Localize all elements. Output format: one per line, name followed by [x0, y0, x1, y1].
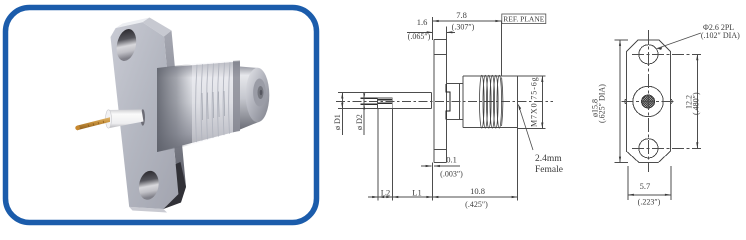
dim phiD1 line [341, 93, 343, 136]
flange bottom face sliver [129, 207, 167, 213]
white dielectric tube [108, 110, 144, 129]
0.1 arrows (outside) [426, 165, 432, 167]
body rectangle [462, 76, 464, 128]
svg-text:REF. PLANE: REF. PLANE [503, 15, 544, 24]
d1 arrows [341, 93, 343, 99]
15.8 arrows [619, 40, 621, 46]
svg-text:2.4mm: 2.4mm [535, 154, 562, 164]
svg-text:Female: Female [535, 165, 563, 175]
svg-text:5.7: 5.7 [640, 181, 651, 191]
12.2 arrows [696, 54, 698, 60]
dia 15.8 dim [619, 40, 621, 163]
svg-text:1.6: 1.6 [417, 17, 428, 27]
tube entry shadow [141, 109, 145, 125]
vertical centerline [647, 30, 649, 172]
ext line top (flange front face) [432, 17, 434, 40]
arrows middle view [341, 20, 543, 198]
REF PLANE vertical line [500, 21, 502, 76]
flange outline octagon [627, 40, 671, 163]
2.4mm female leader [518, 105, 533, 151]
rear shadow band behind flange [157, 64, 192, 152]
horizontal centerline center [622, 101, 676, 103]
svg-text:L2: L2 [381, 188, 390, 198]
svg-text:7.8: 7.8 [456, 10, 467, 20]
flange section [433, 40, 435, 163]
0.1 dim [421, 165, 432, 167]
neck section [446, 83, 462, 85]
svg-text:(.625″ DIA): (.625″ DIA) [598, 84, 607, 123]
7.8 arrows [433, 20, 439, 22]
dim 7.8 line [433, 20, 502, 22]
ext lines from socket down [377, 109, 379, 201]
svg-text:10.8: 10.8 [470, 186, 485, 196]
12.2 dim [696, 54, 698, 148]
side notch arcs [625, 99, 627, 104]
2.6 leader arrow [657, 47, 662, 50]
svg-text:0.1: 0.1 [446, 155, 457, 165]
neck right face [458, 84, 460, 120]
svg-text:(.003″): (.003″) [440, 170, 463, 179]
flange right side face [164, 31, 186, 195]
REF PLANE box [502, 14, 546, 24]
threads [480, 75, 503, 128]
d2 arrows [363, 93, 365, 98]
body right ext line down [517, 128, 519, 201]
horizontal centerline top hole / 12.2 ext [632, 53, 701, 55]
ext line bottom from flange front [431, 162, 433, 200]
pin tube outer lines [338, 92, 432, 94]
flange front face [111, 22, 179, 209]
top mounting hole [114, 27, 139, 63]
2.4mm leader arrow [518, 105, 521, 111]
barrel cylinder body [157, 62, 240, 153]
bottom mounting hole [137, 169, 161, 201]
2.6 leader [657, 33, 701, 49]
bottom dims arrows [372, 196, 378, 198]
top hole [639, 45, 658, 64]
front face inner rings [253, 79, 266, 107]
flange top face highlight [116, 18, 150, 29]
bushing front face [431, 93, 433, 109]
M7 arrows [541, 76, 543, 82]
hatched center conductor [642, 95, 655, 108]
nose cylinder [240, 67, 259, 130]
svg-text:M7X0.75-6g: M7X0.75-6g [530, 76, 539, 127]
dim 1.6 line [407, 31, 433, 33]
horizontal centerline bottom hole / 12.2 ext [632, 147, 701, 149]
svg-text:(.480″): (.480″) [692, 92, 701, 115]
svg-text:(.307″): (.307″) [452, 23, 475, 32]
thread mid shading ticks [202, 91, 225, 120]
5.7 dim [627, 166, 629, 200]
svg-text:ø D2: ø D2 [355, 114, 364, 130]
threaded section light overlay [192, 61, 233, 145]
svg-text:(.102″ DIA): (.102″ DIA) [701, 31, 740, 40]
middle view texts [333, 10, 563, 209]
groove band before nose [233, 61, 240, 133]
bottom dim line [368, 196, 518, 198]
bore cavity behind flange [446, 84, 450, 120]
svg-text:(.425″): (.425″) [465, 200, 488, 209]
centerline [336, 101, 553, 103]
flange top-right chamfer face [143, 18, 172, 37]
svg-text:ø D1: ø D1 [333, 114, 342, 130]
blue rounded border frame around 3D view [6, 8, 317, 223]
svg-text:(.223″): (.223″) [638, 198, 661, 207]
1.6 arrows (outside) [427, 31, 433, 33]
svg-text:(.065″): (.065″) [408, 32, 431, 41]
bottom hole [639, 139, 658, 158]
interface outer circle [633, 86, 663, 116]
flange bottom-right dark face [163, 162, 186, 209]
5.7 arrows [628, 194, 634, 196]
svg-text:L1: L1 [412, 188, 421, 198]
gold center pin [77, 117, 110, 130]
front face disc [246, 68, 270, 122]
socket outline [378, 98, 393, 109]
thread ridges [196, 62, 230, 142]
dim phiD2 line [363, 93, 365, 136]
M7 dim line [541, 76, 543, 129]
contact thick lines [361, 98, 393, 104]
